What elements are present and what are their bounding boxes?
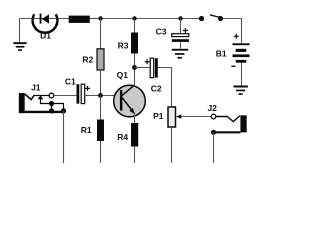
wire: R4 bottom stub	[134, 147, 136, 164]
wire: left drop to ground	[19, 19, 21, 43]
wire: J1 tip to C1	[54, 95, 76, 97]
wire: battery top lead	[241, 19, 243, 44]
battery B1	[216, 34, 250, 67]
wire: R2 top lead	[100, 19, 102, 49]
resistor R2	[82, 49, 104, 70]
wire: C3 top stub	[180, 19, 182, 34]
wire: node to C2	[135, 67, 151, 69]
transistor Q1	[114, 70, 146, 117]
ground (below battery)	[234, 86, 248, 95]
svg-text:J1: J1	[31, 83, 41, 93]
svg-text:C2: C2	[151, 83, 162, 93]
wire: J2 ground drop	[213, 132, 215, 163]
jack J1	[19, 83, 66, 114]
node: top rail / C3 junction	[178, 16, 182, 20]
node: base junction	[98, 93, 103, 98]
capacitor C2	[145, 58, 162, 93]
wire: R1 bottom stub	[100, 141, 102, 163]
wire: R2 bottom lead to base node	[100, 70, 102, 96]
svg-text:B1: B1	[216, 48, 227, 58]
wire: R3 bottom lead to collector node	[134, 54, 136, 68]
svg-text:D1: D1	[40, 31, 51, 41]
svg-text:P1: P1	[153, 111, 164, 121]
svg-text:Q1: Q1	[117, 70, 129, 80]
capacitor C1	[65, 76, 90, 103]
switch (on positive rail)	[199, 15, 223, 21]
resistor R1	[81, 120, 104, 142]
jack J2	[207, 103, 246, 135]
svg-text:J2: J2	[207, 103, 217, 113]
wire: C1 to base node to Q1 base	[85, 95, 120, 97]
wire: R3 top lead	[134, 19, 136, 33]
wire: top rail left segment	[20, 18, 202, 20]
wire: battery bottom lead	[241, 63, 243, 86]
wire: emitter lead	[134, 113, 136, 124]
svg-text:C3: C3	[156, 27, 167, 37]
svg-text:R4: R4	[117, 132, 128, 142]
series resistor (unlabeled, top rail)	[69, 16, 90, 23]
resistor R3	[118, 33, 138, 54]
wire: top rail right segment to battery corner	[221, 18, 242, 20]
wire: J1 ground drop	[63, 111, 65, 163]
ground (below C3)	[172, 49, 188, 59]
svg-text:R2: R2	[82, 55, 93, 65]
wire: wiper to J2	[181, 116, 211, 118]
diode D1	[33, 14, 58, 41]
resistor R4	[117, 123, 138, 147]
node: top rail / R3 junction	[132, 16, 136, 20]
wire: P1 bottom stub	[171, 127, 173, 163]
wire: collector lead	[134, 68, 136, 87]
svg-text:R3: R3	[118, 41, 129, 51]
ground (top left)	[13, 42, 26, 51]
svg-text:R1: R1	[81, 125, 92, 135]
capacitor C3	[156, 27, 189, 42]
node: top rail / R2 junction	[98, 16, 102, 20]
node: collector / C2 junction	[132, 65, 137, 70]
wire: C3 bottom stub	[180, 42, 182, 49]
potentiometer P1	[153, 107, 181, 127]
svg-text:C1: C1	[65, 76, 76, 86]
wire: R1 top lead	[100, 96, 102, 120]
wire: C2 to P1	[158, 68, 172, 108]
